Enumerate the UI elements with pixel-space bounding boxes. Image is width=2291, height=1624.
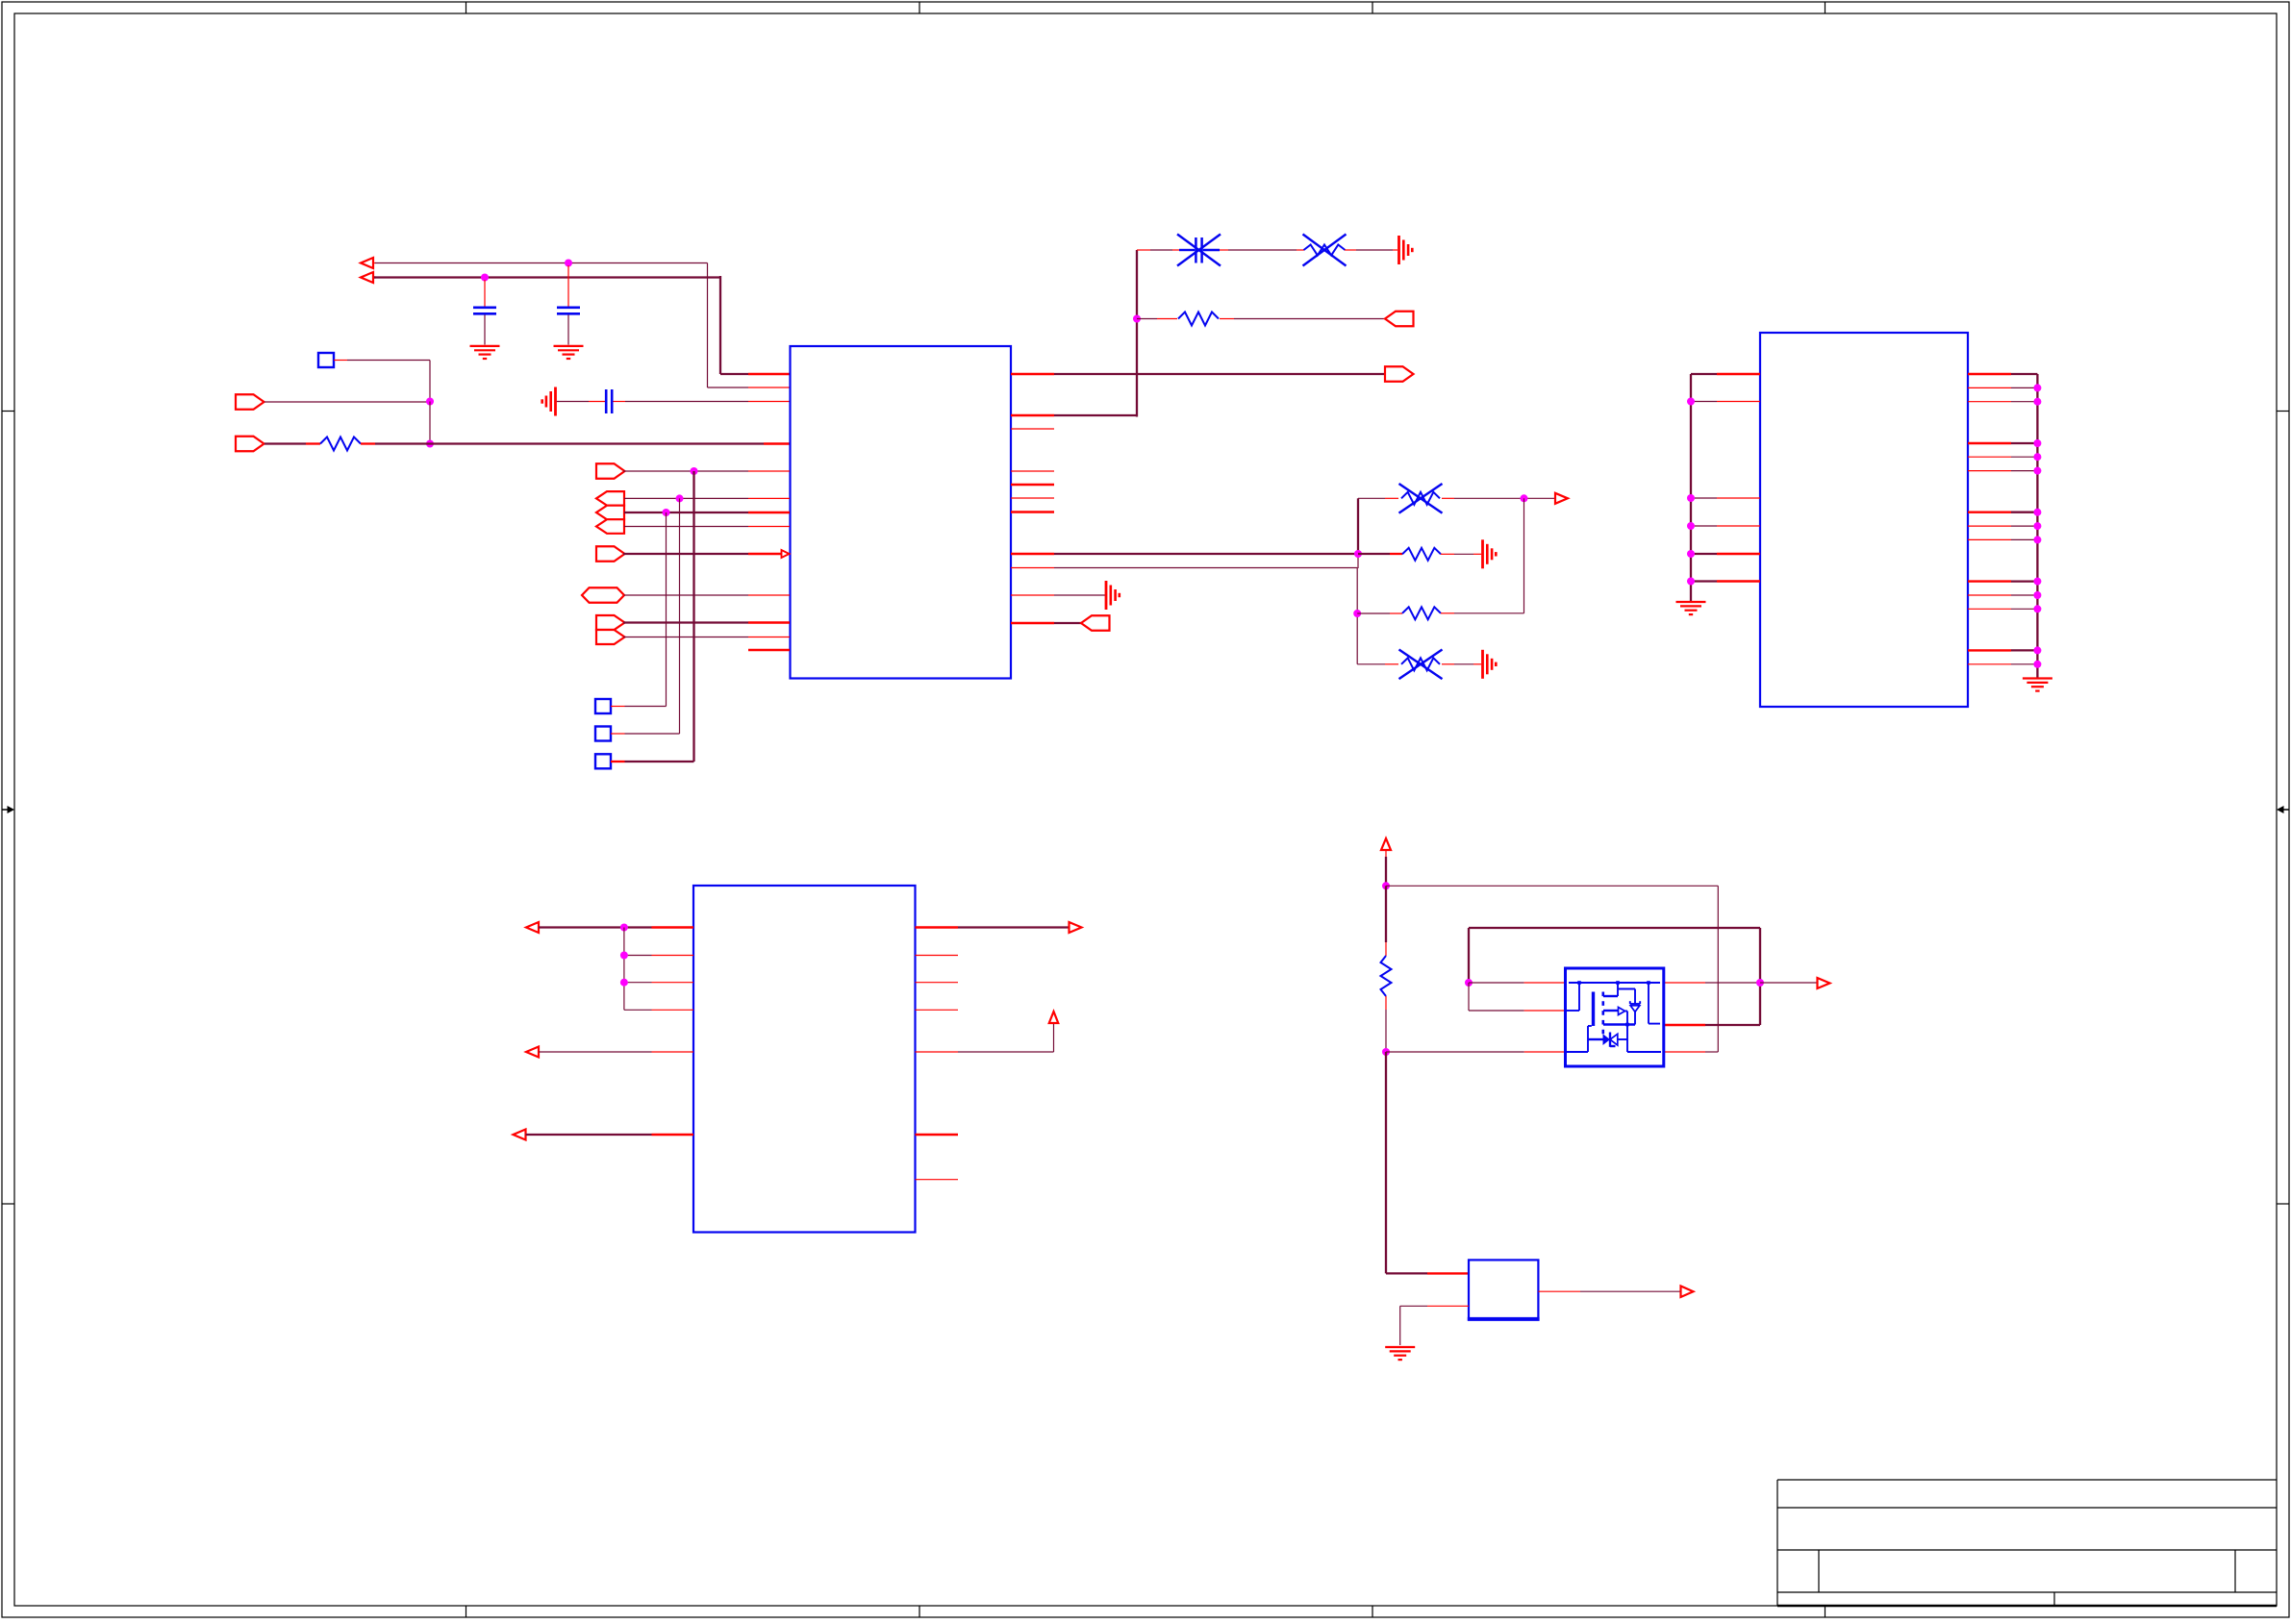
junction dot 1182/331 [1133, 315, 1141, 323]
row B wire [1358, 553, 1402, 555]
row C wire2 [1441, 498, 1524, 613]
analog ground AGND (left of C3) [542, 387, 556, 416]
frame centering arrow right [2277, 806, 2289, 813]
ground U2 right [2023, 679, 2052, 691]
junction dot P3/pad bus [691, 467, 698, 475]
pin stub U3 right 993 [916, 955, 959, 957]
U2 right pin 389 [1968, 373, 2037, 375]
analog ground AGND2 [1399, 236, 1413, 264]
row A wire2 [1442, 497, 1555, 499]
wire R2 to port [1220, 318, 1385, 320]
U2 right pin 604 [1968, 578, 2041, 586]
wire SQ2 bus [611, 498, 680, 734]
wire Q1 right-top pin [1664, 982, 1760, 984]
transistor Q1 internals [1567, 981, 1661, 1052]
crossed capacitor FB1 [1177, 235, 1221, 266]
pin stub U1 right 446 [1011, 428, 1054, 430]
pin stub U3 right 1180 [916, 1134, 959, 1136]
pad SQ2 [595, 727, 611, 741]
junction dot U2L 518 [1687, 494, 1695, 502]
resistor R4 [1402, 607, 1441, 619]
wire Q1 out [1760, 982, 1817, 984]
port P7 [596, 546, 625, 562]
row D wire2 [1442, 663, 1481, 665]
wire VCC to gate loop [1386, 886, 1718, 1052]
wire net B [373, 276, 790, 374]
pad SQ1 [595, 699, 611, 713]
IC U4 [1468, 1260, 1540, 1319]
junction dot node R1 [426, 440, 434, 448]
capacitor C2 [557, 265, 580, 345]
row D wire [1357, 663, 1398, 665]
pin stub U1 left 676 [748, 649, 790, 651]
wire P8 [624, 594, 790, 596]
IC U3 [693, 886, 916, 1233]
U2 right bus [2036, 374, 2038, 678]
junction dot row B [1354, 550, 1362, 558]
U2 left pin 518 [1691, 497, 1760, 499]
junction dot node P1 [426, 398, 434, 406]
wire U3 pin4 [624, 1009, 693, 1011]
junction dot U3 bus2 [620, 952, 628, 960]
wire FB1-FB2 [1220, 249, 1304, 251]
ground U2 left [1676, 602, 1706, 614]
port P14 (left-pointing) [1081, 615, 1110, 631]
pin stub U3 right 1050 [916, 1009, 959, 1011]
thick drain loop [1469, 928, 1760, 1025]
U2 right pin 532 [1968, 509, 2041, 516]
junction dot U3 bus3 [620, 979, 628, 987]
chevron port P6 [596, 519, 624, 534]
IC U2 [1760, 333, 1968, 707]
junction dot row A [1521, 494, 1528, 502]
junction dot net A / C2 [565, 260, 572, 267]
wire P7 [623, 553, 781, 555]
port arrow X2 (net B out) [361, 272, 373, 283]
U2 right pin 676 [1968, 646, 2041, 654]
resistor R5 (vertical) [1381, 886, 1392, 1052]
row C wire [1357, 612, 1402, 614]
pin U1 right 432 wire [1011, 250, 1137, 417]
junction dot net B / C1 [481, 274, 489, 282]
ground GND C2 [554, 346, 584, 359]
crossed resistor FB4 [1399, 650, 1443, 680]
port arrow X1 (net A out) [361, 258, 373, 268]
capacitor C1 [473, 280, 496, 345]
wire U3 pin2 [624, 955, 693, 957]
transistor Q1 package [1566, 968, 1664, 1066]
capacitor C3 (series) [557, 389, 790, 413]
title block [1777, 1480, 2277, 1606]
wire U3 pin3 [624, 982, 693, 984]
row A wire [1358, 497, 1398, 499]
crossed resistor FB3 [1399, 484, 1443, 513]
U2 left pin 389 [1691, 373, 1760, 375]
wire U3 right pin1 [916, 926, 1070, 928]
junction dot U3 bus1 [620, 924, 628, 932]
wire P6 [624, 526, 790, 528]
U2 right pin 690 [1968, 661, 2041, 668]
wire P3 [623, 470, 790, 472]
wire Q1 left-top pin [1469, 982, 1566, 984]
crossed resistor FB2 [1303, 235, 1347, 266]
flag port P10 [596, 630, 625, 644]
wire P4 [624, 497, 790, 499]
wire gate node to U4 [1386, 1052, 1469, 1273]
U2 left pin 576 [1691, 553, 1760, 555]
junction dot Q1 out [1756, 979, 1764, 987]
chevron port P5 [596, 506, 624, 520]
pin U1 right 648 wire [1011, 622, 1081, 624]
arrow port P15 [526, 922, 539, 933]
junction dot P5 bus [663, 509, 670, 516]
U2 right pin 403 [1968, 384, 2041, 391]
pin arrowhead P7 [782, 550, 790, 558]
wire U3 right 1094 [916, 1023, 1054, 1052]
wire P5 [624, 512, 790, 513]
junction dot U2L 417 [1687, 398, 1695, 406]
wire ESD row [1137, 249, 1179, 251]
wire R1 to U1 [361, 442, 790, 444]
wire VCC down [1385, 850, 1387, 886]
arrow port P13 [1555, 493, 1568, 504]
pad SQ3 [595, 754, 611, 768]
port P12 (left-pointing) [1385, 312, 1414, 327]
wire node down [429, 402, 431, 444]
wire P10 [623, 637, 790, 638]
U2 right pin 461 [1968, 439, 2041, 447]
pin U1 right 389 wire to port [1011, 373, 1385, 375]
wire SQ1 bus [611, 512, 667, 707]
wire U3 pin5 [539, 1051, 693, 1053]
pin stub U1 right 532 [1011, 511, 1054, 512]
wire P9 [623, 621, 790, 623]
pin U1 right 590 wire [1011, 567, 1357, 569]
U2 right pin 561 [1968, 536, 2041, 543]
wire Q1 right-mid pin [1664, 1024, 1760, 1026]
arrow port P18 [1070, 922, 1082, 933]
U2 right pin 417 [1968, 398, 2041, 406]
U2 left pin 417 [1691, 401, 1760, 403]
hex port P8 [582, 587, 624, 603]
junction dot VCC node [1382, 882, 1390, 889]
junction dot row C [1353, 610, 1361, 617]
U2 right pin 633 [1968, 605, 2041, 612]
chevron port P4 [596, 491, 624, 506]
junction dot P4 bus [676, 494, 684, 502]
row B wire2 [1441, 553, 1481, 555]
arrow port P16 [526, 1047, 539, 1058]
pin stub U1 right 504 [1011, 484, 1054, 486]
wire U3 pin1 [539, 926, 693, 928]
flag port P9 [596, 615, 625, 630]
junction dot Q1 left [1465, 979, 1473, 987]
arrow port P19 (up) [1049, 1012, 1059, 1023]
port P1 (left) [236, 394, 264, 410]
U2 right pin 475 [1968, 453, 2041, 461]
junction dot U2L 576 [1687, 550, 1695, 558]
pin stub U3 right 1226 [916, 1179, 959, 1181]
wire P2 to R1 [264, 442, 320, 444]
port P11 (right) [1385, 366, 1414, 382]
wire R2 row [1137, 318, 1177, 320]
junction dot U2L 547 [1687, 522, 1695, 530]
frame centering arrow left [2, 806, 14, 813]
wire U3 pin6 [526, 1134, 694, 1136]
U3 left bus [623, 928, 625, 1011]
arrow port P21 [1681, 1286, 1694, 1297]
U2 right pin 547 [1968, 522, 2041, 530]
ground GND C1 [470, 346, 500, 359]
pin stub U3 right 1021 [916, 982, 959, 984]
U2 right pin 619 [1968, 591, 2041, 599]
port P3 [596, 463, 625, 479]
wire Q1 left-mid pin [1469, 983, 1566, 1011]
IC U1 [791, 346, 1012, 679]
wire U4 gnd pin [1400, 1306, 1469, 1345]
ground U4 [1385, 1347, 1415, 1360]
analog ground AGND4 [1483, 650, 1497, 679]
junction dot U2L 604 [1687, 578, 1695, 586]
resistor R3 [1402, 548, 1441, 561]
U2 left pin 604 [1691, 580, 1760, 582]
wire TP1 to node [334, 361, 430, 402]
arrow port P20 [1818, 978, 1830, 988]
test pad TP1 [318, 353, 334, 367]
junction dot gate node [1382, 1048, 1390, 1056]
wire gate row [1386, 1051, 1566, 1053]
pin stub U1 right 518 [1011, 497, 1054, 499]
analog ground AGND5 [1106, 581, 1120, 610]
wire SQ3 bus [611, 471, 694, 762]
wire P1 [264, 401, 430, 403]
analog ground AGND3 [1483, 539, 1497, 568]
resistor R2 [1178, 312, 1219, 326]
wire U4 out [1538, 1290, 1680, 1292]
pin stub U1 right 490 [1011, 470, 1054, 472]
wire Q1 right-bottom pin [1664, 1051, 1719, 1053]
resistor R1 [320, 437, 361, 451]
wire net A [373, 263, 790, 388]
U2 right pin 489 [1968, 467, 2041, 475]
U2 left pin 547 [1691, 525, 1760, 527]
wire FB2-gnd [1345, 249, 1397, 251]
pin U1 right 576 wire [1011, 553, 1358, 555]
U2 left bus [1690, 374, 1692, 601]
arrow port P17 [514, 1130, 526, 1140]
power arrow VCC [1381, 838, 1391, 850]
pin U1 right 619 wire [1011, 594, 1105, 596]
vertical bus X network [1356, 498, 1359, 664]
port P2 (left) [236, 437, 264, 452]
